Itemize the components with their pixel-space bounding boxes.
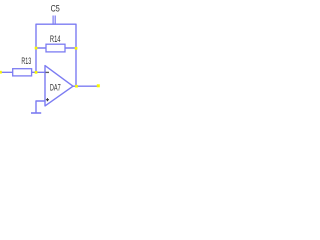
svg-text:R14: R14 bbox=[50, 34, 61, 44]
background bbox=[0, 0, 104, 117]
node junction output feedback bbox=[75, 85, 78, 88]
wire R14 branch bbox=[36, 47, 76, 49]
node junction left R14 bbox=[35, 47, 38, 50]
capacitor C5 plates bbox=[53, 16, 55, 25]
wire output bbox=[73, 85, 99, 87]
node endpoint output right bbox=[97, 84, 100, 87]
resistor R13 body bbox=[13, 69, 32, 76]
svg-text:C5: C5 bbox=[51, 4, 60, 14]
node junction inverting input bbox=[35, 71, 38, 74]
op-amp minus sign bbox=[46, 71, 50, 73]
svg-text:DA7: DA7 bbox=[50, 83, 61, 93]
op-amp plus sign bbox=[46, 98, 49, 101]
node endpoint input left bbox=[0, 71, 2, 74]
svg-text:R13: R13 bbox=[21, 56, 31, 66]
wire input from R13 to op-amp inverting input bbox=[0, 71, 45, 73]
wire feedback loop (left vertical, top horizontal, right vertical) bbox=[36, 24, 76, 86]
node junction right R14 bbox=[75, 47, 78, 50]
wire non-inverting input to ground bbox=[36, 101, 45, 113]
ground bbox=[31, 112, 41, 114]
op-amp U1 triangle bbox=[45, 66, 73, 106]
resistor R14 body bbox=[46, 44, 65, 52]
